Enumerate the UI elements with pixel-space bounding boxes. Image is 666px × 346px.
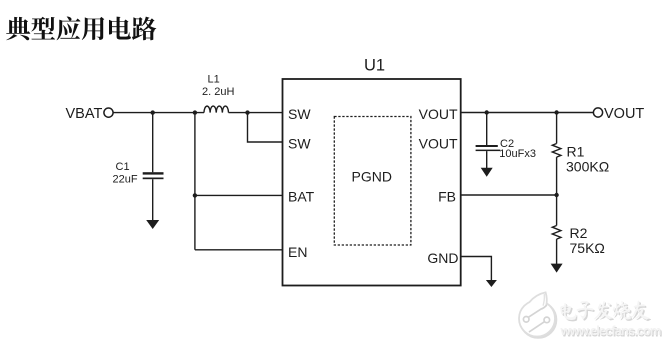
wire C2 top lead <box>486 113 488 146</box>
svg-text:VOUT: VOUT <box>419 106 458 122</box>
wire C1 bottom lead <box>152 179 154 220</box>
IC U1 body <box>283 79 461 286</box>
wire R2 top lead <box>556 195 558 226</box>
wire C2 bottom lead <box>486 151 488 168</box>
svg-text:VOUT: VOUT <box>604 106 644 122</box>
wire inductor L1 to SW pin <box>229 112 283 114</box>
junction FB node <box>554 193 558 197</box>
wire to BAT pin <box>195 194 283 196</box>
svg-text:www.elecfans.com: www.elecfans.com <box>560 323 661 338</box>
svg-text:R1: R1 <box>567 144 585 160</box>
svg-text:U1: U1 <box>364 57 385 75</box>
wire FB pin to divider <box>461 194 557 196</box>
node VBAT terminal circle <box>104 108 113 117</box>
resistor R1 <box>552 144 561 158</box>
svg-text:VBAT: VBAT <box>66 106 103 122</box>
wire C1 top lead <box>152 113 154 173</box>
svg-text:SW: SW <box>288 135 311 151</box>
wire to EN pin <box>195 249 283 251</box>
junction C2 tap <box>485 110 489 114</box>
capacitor C2 <box>476 145 501 151</box>
junction C1 tap <box>151 110 155 114</box>
wire VOUT pin to VOUT terminal <box>461 112 594 114</box>
svg-text:PGND: PGND <box>352 169 392 185</box>
svg-text:GND: GND <box>427 250 458 266</box>
svg-text:75KΩ: 75KΩ <box>570 240 605 256</box>
wire R2 bottom lead <box>556 239 558 264</box>
ground (R2) <box>551 264 563 273</box>
wire R1 bottom lead to FB <box>556 157 558 195</box>
wire VBAT terminal to inductor L1 <box>113 112 204 114</box>
watermark logo leaf tip <box>529 292 546 309</box>
svg-text:2. 2uH: 2. 2uH <box>202 86 234 98</box>
junction at BAT wire <box>193 193 197 197</box>
wire GND pin <box>461 257 492 281</box>
svg-text:FB: FB <box>438 188 456 204</box>
inductor L1 <box>204 106 228 112</box>
watermark logo circle (elecfans) <box>519 292 556 337</box>
svg-text:L1: L1 <box>208 74 220 86</box>
node VOUT terminal circle <box>593 108 602 117</box>
junction R1 tap <box>554 110 558 114</box>
svg-text:SW: SW <box>288 106 311 122</box>
watermark logo circuit traces <box>523 306 549 332</box>
svg-text:BAT: BAT <box>288 188 315 204</box>
junction SW2 branch <box>245 110 249 114</box>
wire VBAT branch vertical to BAT/EN <box>194 113 196 250</box>
watermark text 电子发烧友 <box>560 300 651 321</box>
ground (C2) <box>481 168 493 177</box>
ground (GND pin) <box>486 280 497 287</box>
ground (C1) <box>146 220 159 229</box>
junction BAT/EN branch <box>193 110 197 114</box>
svg-text:300KΩ: 300KΩ <box>566 158 609 174</box>
wire R1 top lead <box>556 113 558 144</box>
svg-text:VOUT: VOUT <box>419 135 458 151</box>
svg-text:C1: C1 <box>116 161 130 173</box>
svg-text:10uFx3: 10uFx3 <box>499 148 536 160</box>
watermark url www.elecfans.com <box>560 323 662 339</box>
capacitor C1 <box>143 172 164 179</box>
wire SW2 branch vertical <box>248 113 283 142</box>
title 典型应用电路 <box>6 17 156 41</box>
svg-text:22uF: 22uF <box>113 173 138 185</box>
svg-text:EN: EN <box>288 244 307 260</box>
PGND dashed region <box>334 117 411 246</box>
svg-text:R2: R2 <box>570 225 588 241</box>
resistor R2 <box>552 226 561 240</box>
